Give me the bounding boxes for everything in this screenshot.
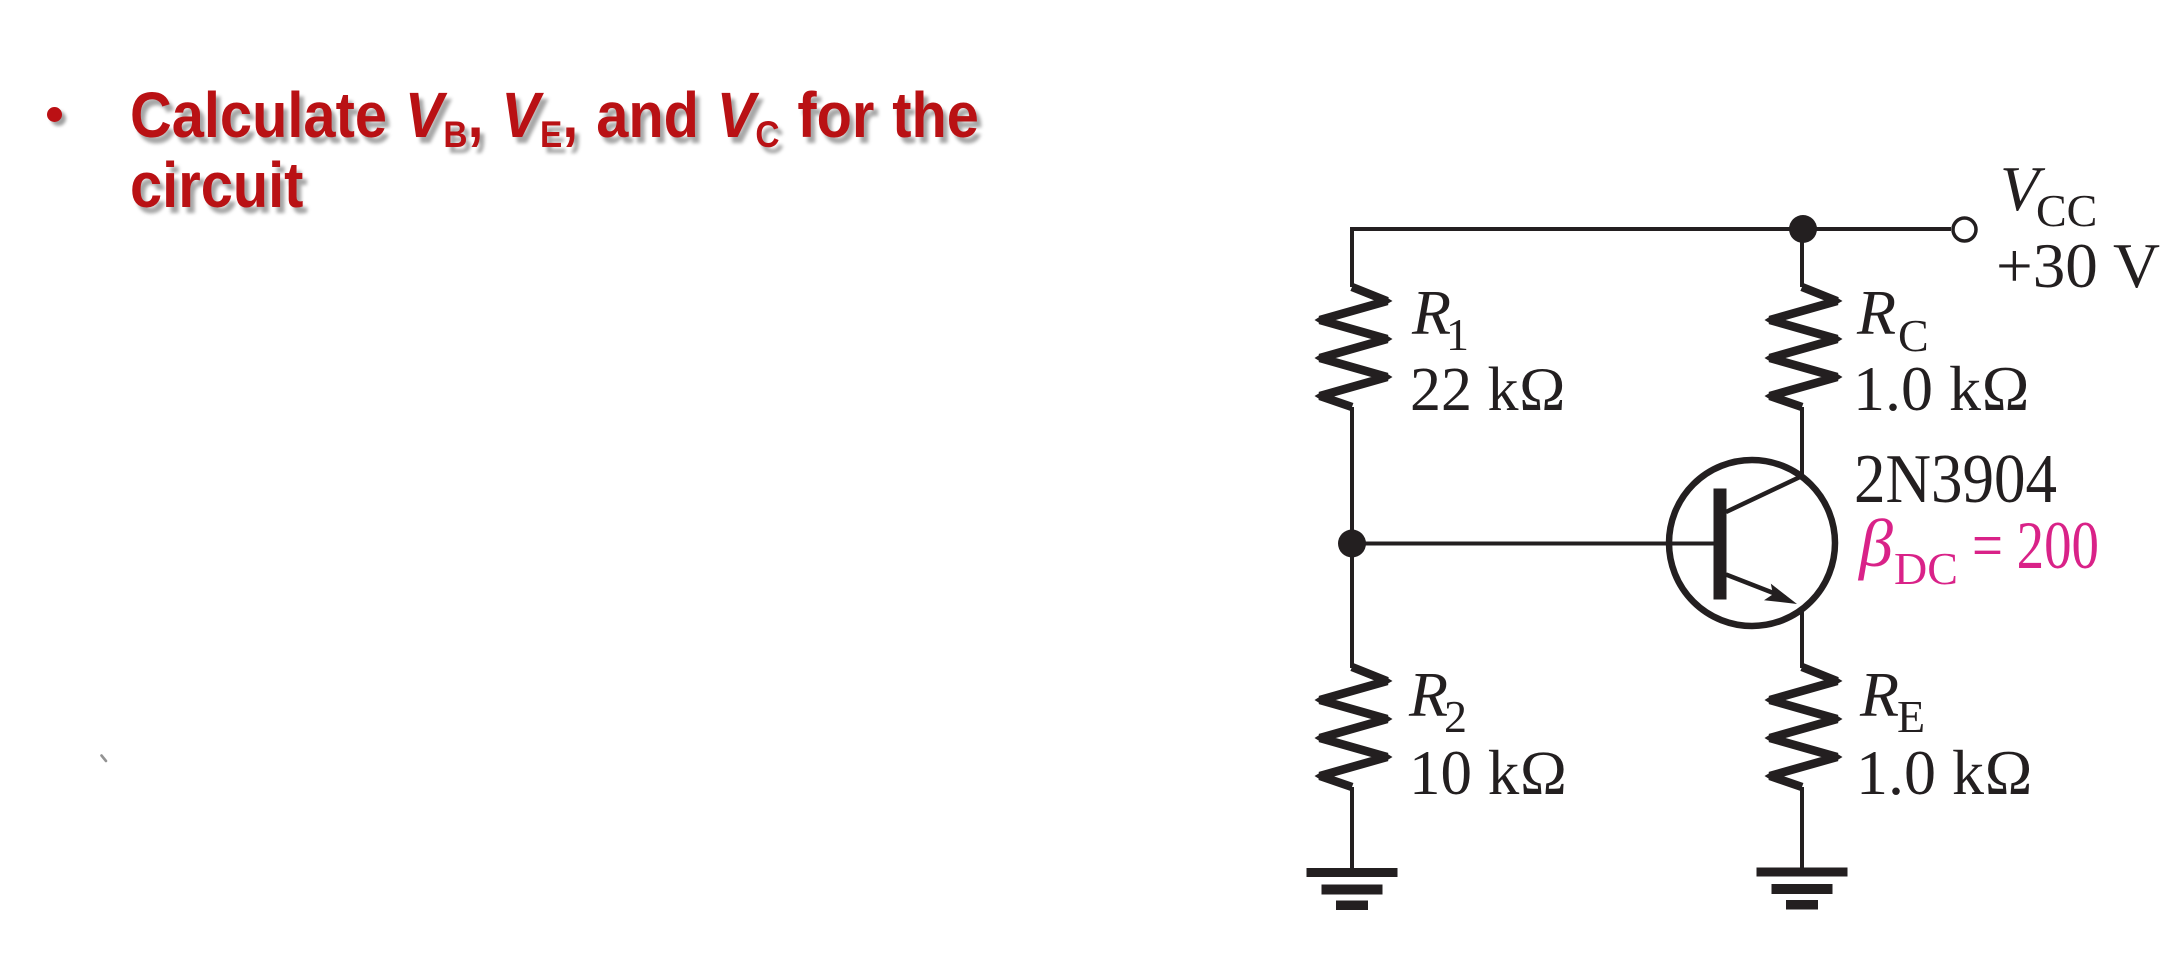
node junction dot top — [1789, 215, 1817, 243]
svg-text:β: β — [1857, 505, 1893, 581]
svg-text:DC: DC — [1894, 543, 1958, 594]
svg-text:CC: CC — [2036, 185, 2097, 236]
wire right: emitter to RE — [1800, 608, 1804, 668]
bullet — [47, 107, 62, 122]
resistor R1 — [1315, 283, 1393, 411]
transistor emitter lead — [1726, 575, 1785, 598]
svg-text:R: R — [1408, 659, 1448, 730]
svg-text:1.0 kΩ: 1.0 kΩ — [1856, 737, 2033, 808]
transistor Q1 circle — [1669, 460, 1835, 626]
transistor collector lead — [1726, 476, 1802, 512]
svg-text:= 200: = 200 — [1972, 507, 2099, 583]
ground (left) — [1307, 868, 1398, 910]
svg-text:E: E — [1897, 691, 1925, 742]
svg-text:R: R — [1856, 277, 1896, 348]
svg-text:1: 1 — [1446, 309, 1469, 360]
svg-text:22 kΩ: 22 kΩ — [1410, 356, 1566, 424]
wire top rail — [1352, 227, 1951, 231]
resistor RE — [1765, 663, 1843, 791]
resistor RC — [1765, 283, 1843, 411]
title text — [130, 80, 979, 220]
resistor R2 — [1315, 663, 1393, 791]
wire left: top corner to R1 — [1350, 227, 1354, 287]
transistor emitter arrowhead — [1764, 584, 1797, 604]
VCC terminal open circle — [1953, 218, 1976, 241]
svg-text:+30 V: +30 V — [1996, 230, 2160, 301]
wire left: R2 to ground — [1350, 787, 1354, 868]
wire right: junction to RC — [1800, 229, 1804, 287]
svg-text:10 kΩ: 10 kΩ — [1409, 738, 1568, 808]
transistor base bar — [1714, 489, 1727, 600]
svg-text:2: 2 — [1444, 691, 1467, 742]
ground (right) — [1757, 868, 1848, 910]
wire left: R1 to R2 — [1350, 407, 1354, 668]
svg-text:1.0 kΩ: 1.0 kΩ — [1853, 353, 2030, 424]
wire right: RC to collector — [1800, 407, 1804, 478]
wire right: RE to ground — [1800, 787, 1804, 868]
svg-text:R: R — [1859, 659, 1899, 730]
node B dot — [1338, 530, 1366, 558]
stray scan speck — [102, 756, 107, 762]
wire base — [1352, 542, 1716, 546]
